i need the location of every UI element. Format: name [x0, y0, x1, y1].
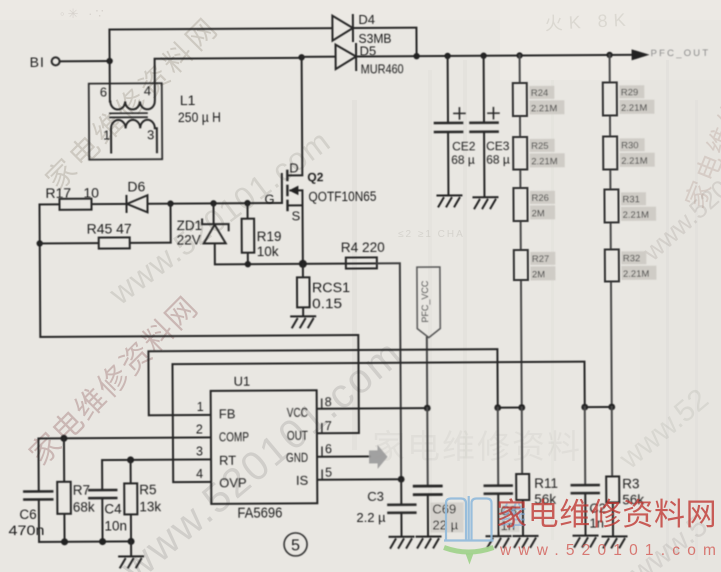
- svg-text:R7: R7: [73, 483, 90, 498]
- ground C3: [390, 537, 414, 548]
- resistor R11: [516, 407, 530, 536]
- L1 secondary winding: [111, 120, 157, 153]
- resistor R7: [57, 438, 71, 542]
- node COMP/R7 junction: [60, 435, 67, 442]
- svg-text:7: 7: [325, 419, 332, 433]
- Q2 source stub: [287, 190, 302, 264]
- svg-text:CE3: CE3: [486, 139, 510, 153]
- Q2 body stub with arrow: [289, 186, 303, 195]
- svg-text:R4 220: R4 220: [341, 240, 385, 255]
- arrow gray at pin6: [369, 445, 388, 469]
- wire VCC pin8: [317, 407, 427, 410]
- CE3 plus sign: [488, 108, 499, 119]
- svg-text:PFC_OUT: PFC_OUT: [651, 48, 711, 59]
- node FB/C8 junction: [494, 404, 501, 411]
- resistor R5: [124, 460, 137, 542]
- svg-text:R5: R5: [139, 482, 156, 497]
- node rail CE3 junction: [480, 53, 486, 59]
- svg-text:FA5696: FA5696: [237, 504, 282, 521]
- resistor R3: [606, 407, 620, 537]
- svg-text:2.21M: 2.21M: [621, 103, 648, 114]
- red watermark layer: [444, 496, 721, 565]
- label C8: [499, 504, 519, 532]
- wire to ground R5: [130, 541, 132, 556]
- svg-text:C69: C69: [432, 501, 456, 516]
- svg-text:D5: D5: [360, 43, 377, 58]
- svg-text:68 µ: 68 µ: [486, 153, 510, 167]
- wire B1 to node A: [60, 60, 110, 62]
- svg-text:U1: U1: [234, 374, 251, 389]
- wire COMP pin2: [38, 437, 211, 491]
- svg-text:1: 1: [103, 128, 110, 143]
- ground CE2: [437, 195, 461, 206]
- node C4 bottom junction: [99, 538, 106, 545]
- svg-text:470n: 470n: [8, 523, 44, 538]
- node rail D4 junction: [413, 53, 419, 59]
- svg-text:10n: 10n: [104, 518, 127, 533]
- wire D4 cathode to output rail: [353, 28, 417, 57]
- wire GND pin6: [317, 455, 370, 457]
- capacitor C8: [484, 408, 512, 537]
- net label PFC_VCC arrow box: [417, 267, 440, 338]
- capacitor C6: [24, 491, 52, 542]
- capacitor C3: [388, 479, 415, 537]
- wire node A up and right to D4 anode: [109, 28, 332, 61]
- svg-text:G: G: [264, 192, 274, 207]
- node R7 bottom junction: [61, 538, 68, 545]
- svg-text:家电维修资料网: 家电维修资料网: [496, 497, 717, 532]
- divider chain 1 wires: [520, 56, 522, 408]
- wire transformer pin4 to node B: [155, 58, 302, 99]
- node OVP/C2 junction: [581, 404, 588, 411]
- svg-text:2.21M: 2.21M: [621, 156, 648, 167]
- svg-text:D: D: [289, 160, 298, 175]
- svg-text:C4: C4: [104, 501, 122, 516]
- ground R3: [603, 536, 627, 547]
- L1 core: [110, 113, 147, 117]
- transistor Q2 channel: [286, 171, 289, 210]
- ground R5: [119, 556, 143, 567]
- svg-text:6: 6: [325, 442, 332, 456]
- svg-text:2: 2: [196, 422, 203, 436]
- wire bottom rail: [39, 540, 131, 543]
- svg-text:13k: 13k: [139, 499, 161, 514]
- svg-text:ZD1: ZD1: [177, 218, 203, 233]
- ground C2: [574, 536, 598, 547]
- inductor L1 box: [89, 83, 162, 159]
- capacitor C69: [414, 408, 442, 537]
- svg-text:4: 4: [144, 83, 151, 98]
- svg-text:1: 1: [197, 400, 204, 414]
- svg-text:2M: 2M: [532, 208, 545, 219]
- pin tick marks U1 right: [321, 399, 323, 479]
- svg-text:R3: R3: [622, 476, 639, 491]
- ground RCS1: [291, 316, 315, 327]
- svg-text:MUR460: MUR460: [361, 62, 404, 76]
- svg-text:5: 5: [325, 466, 332, 480]
- svg-text:FB: FB: [219, 406, 236, 421]
- resistor R30: [603, 136, 617, 169]
- resistor RCS1: [297, 264, 310, 317]
- wire RT pin3: [102, 459, 211, 489]
- svg-text:2.21M: 2.21M: [623, 269, 650, 280]
- svg-text:250 µ H: 250 µ H: [178, 109, 221, 125]
- resistor R29: [603, 82, 617, 115]
- node rail divider2 junction: [606, 52, 612, 58]
- svg-text:R27: R27: [532, 254, 550, 265]
- svg-text:R19: R19: [257, 229, 282, 244]
- diode D6: [91, 195, 170, 212]
- svg-text:C3: C3: [367, 489, 384, 504]
- resistor R19: [241, 203, 254, 264]
- svg-text:4: 4: [196, 467, 203, 481]
- svg-text:IS: IS: [296, 473, 309, 488]
- svg-text:CE2: CE2: [452, 139, 476, 153]
- node OVP/R3 junction: [608, 404, 615, 411]
- svg-text:68k: 68k: [73, 500, 95, 515]
- wire FB net: riser and top run to divider1: [148, 349, 497, 415]
- svg-text:3: 3: [147, 127, 154, 142]
- zener ZD1: [202, 203, 229, 264]
- svg-text:≤2 ≥1 CHA: ≤2 ≥1 CHA: [398, 229, 465, 240]
- svg-text:2.21M: 2.21M: [531, 103, 558, 114]
- ground C8: [487, 536, 511, 547]
- resistor R4: [346, 257, 377, 268]
- node R19 top junction: [244, 200, 250, 206]
- svg-text:0.15: 0.15: [312, 296, 342, 311]
- node gate/D6 junction: [167, 200, 173, 206]
- labels divider chain 2: [619, 85, 656, 280]
- svg-text:5: 5: [291, 537, 300, 554]
- svg-text:2.21M: 2.21M: [531, 156, 558, 167]
- svg-text:www.520101.com: www.520101.com: [499, 542, 721, 559]
- svg-text:PFC_VCC: PFC_VCC: [420, 280, 430, 323]
- resistor R17: [39, 199, 91, 210]
- wire OUT pin7 to gate drive line: [40, 335, 359, 435]
- node R45 left junction: [37, 240, 43, 246]
- node RT/R5 junction: [127, 456, 134, 463]
- logo open book: [444, 496, 494, 542]
- MOSFET Q2 drain wire: [287, 57, 303, 175]
- label C69: [430, 502, 463, 532]
- symbol circled 5: [284, 533, 307, 556]
- wire source rail: [215, 263, 400, 264]
- wire PFC_VCC to vcc node: [426, 338, 428, 408]
- ground R11: [514, 536, 538, 547]
- svg-text:10: 10: [83, 185, 99, 201]
- svg-text:BI: BI: [30, 54, 45, 70]
- svg-text:10k: 10k: [257, 244, 279, 259]
- L1 pin6 wire: [109, 61, 111, 101]
- resistor R27: [514, 250, 528, 280]
- svg-text:◦✳ ·∵: ◦✳ ·∵: [60, 6, 107, 21]
- wire gate line: [170, 202, 281, 205]
- wire OVP net: riser and top run to divider2: [172, 362, 585, 483]
- svg-text:8: 8: [325, 395, 332, 409]
- diode D4: [332, 15, 353, 41]
- svg-text:L1: L1: [180, 92, 196, 108]
- svg-text:3: 3: [196, 444, 203, 458]
- svg-text:C6: C6: [19, 507, 36, 522]
- wire output rail PFC_OUT: [356, 55, 632, 57]
- IC U1 box: [211, 390, 318, 504]
- resistor R45: [39, 204, 170, 249]
- svg-text:R25: R25: [531, 141, 549, 152]
- diode D5: [336, 44, 357, 70]
- svg-text:R45 47: R45 47: [87, 220, 132, 236]
- labels divider chain 1: [529, 86, 565, 281]
- svg-text:R32: R32: [623, 253, 641, 264]
- node A junction: [106, 58, 112, 64]
- svg-text:QOTF10N65: QOTF10N65: [308, 189, 376, 204]
- svg-text:GND: GND: [286, 450, 308, 465]
- node FB/R11 junction: [518, 404, 525, 411]
- svg-text:6: 6: [100, 85, 107, 100]
- svg-text:Q2: Q2: [307, 170, 323, 184]
- ground C69: [417, 537, 441, 548]
- wire OVP node segment: [585, 406, 612, 408]
- L1 primary winding: [110, 101, 154, 109]
- svg-text:2.21M: 2.21M: [623, 210, 650, 221]
- divider chain 2 wires: [610, 55, 612, 407]
- resistor R26: [513, 188, 527, 221]
- arrow PFC_OUT: [632, 49, 650, 60]
- capacitor CE3: [470, 56, 498, 198]
- svg-text:RT: RT: [219, 453, 236, 468]
- resistor R24: [513, 83, 527, 116]
- wire FB node segment: [498, 407, 522, 409]
- svg-text:2M: 2M: [532, 269, 545, 280]
- svg-text:R17: R17: [45, 185, 71, 201]
- ground CE3: [473, 197, 497, 208]
- node rail CE2 junction: [444, 53, 450, 59]
- resistor R25: [513, 137, 527, 170]
- node source junction: [299, 260, 307, 268]
- node VCC/C69 junction: [424, 405, 431, 412]
- node R19 bottom junction: [245, 261, 251, 267]
- capacitor CE2: [435, 56, 463, 196]
- svg-text:2.2 µ: 2.2 µ: [356, 510, 386, 525]
- resistor R32: [605, 249, 619, 281]
- svg-text:68 µ: 68 µ: [451, 153, 475, 167]
- svg-text:R26: R26: [531, 193, 549, 204]
- wire R4 to IS node: [377, 263, 401, 479]
- resistor R31: [604, 189, 618, 222]
- Q2 gate electrode: [281, 174, 283, 203]
- wire IS pin5: [317, 478, 401, 481]
- svg-text:R11: R11: [534, 476, 558, 491]
- capacitor C4: [89, 490, 116, 542]
- node ZD1 top junction: [210, 200, 216, 206]
- logo green swoosh: [444, 548, 494, 553]
- svg-text:OVP: OVP: [219, 475, 247, 490]
- svg-text:RCS1: RCS1: [312, 280, 350, 295]
- svg-text:22V: 22V: [177, 232, 201, 247]
- svg-text:R24: R24: [531, 88, 549, 99]
- svg-text:COMP: COMP: [219, 429, 249, 444]
- svg-text:S: S: [292, 208, 301, 223]
- node B junction: [298, 54, 304, 60]
- svg-text:R29: R29: [621, 87, 639, 98]
- node R5 bottom junction: [128, 538, 135, 545]
- wire node B to D5 anode: [302, 56, 336, 58]
- terminal B1: [52, 57, 60, 65]
- svg-text:R30: R30: [621, 140, 639, 151]
- CE2 plus sign: [454, 108, 465, 119]
- node IS junction: [398, 476, 405, 483]
- capacitor C2: [571, 407, 599, 536]
- svg-text:家电维修资料: 家电维修资料: [372, 428, 582, 465]
- svg-text:D6: D6: [127, 178, 145, 194]
- svg-text:OUT: OUT: [287, 428, 308, 443]
- svg-text:VCC: VCC: [287, 405, 308, 420]
- svg-text:D4: D4: [358, 12, 375, 27]
- wire R17 left riser: [38, 204, 41, 336]
- node rail divider1 junction: [516, 52, 522, 58]
- svg-text:R31: R31: [622, 194, 640, 205]
